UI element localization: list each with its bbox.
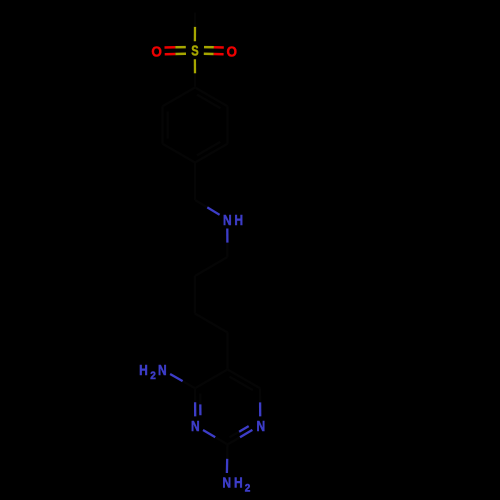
bond CH2-NH [195,200,220,215]
pyrimidine N3-C2 [203,430,228,445]
double bond S=O right [204,47,224,54]
benzene C5=C6 [163,106,168,144]
svg-text:H: H [234,474,243,491]
chain bond [194,276,196,314]
svg-text:N: N [222,474,231,491]
svg-text:N: N [256,418,265,435]
svg-text:N: N [158,362,167,379]
benzene C1=C2 [195,88,228,109]
bond NH-CH2 [226,229,228,258]
benzene C6-C1 [163,88,196,107]
pyrimidine N1-C6 [259,388,262,416]
svg-text:2: 2 [245,482,251,494]
pyrimidine C4=N3 [195,388,200,416]
svg-text:H: H [139,362,148,379]
pyrimidine C5-C4 [195,370,228,389]
svg-text:N: N [191,418,200,435]
chain bond [195,257,228,276]
svg-text:N: N [223,212,232,229]
bond S-C1 (ring attach) [194,59,196,87]
benzene C2-C3 [226,106,228,144]
double bond S=O left [165,47,187,54]
pyrimidine C6=C5 [228,370,261,391]
chain bond [195,314,228,333]
benzene C4-C5 [163,144,196,163]
pyrimidine C2=N1 [228,426,253,444]
benzene C3=C4 [195,142,228,163]
bond C2-NH2(amine) [226,445,229,474]
bond C4-CH2 [194,163,196,201]
svg-text:2: 2 [150,370,156,382]
bond CH3-S [194,13,196,42]
svg-text:S: S [191,43,198,60]
bond chain-C5(pyrimidine) [226,333,228,370]
bond C4-NH2(amine) [170,374,195,388]
svg-text:O: O [226,43,237,60]
svg-text:H: H [234,212,243,229]
svg-text:O: O [151,43,162,60]
